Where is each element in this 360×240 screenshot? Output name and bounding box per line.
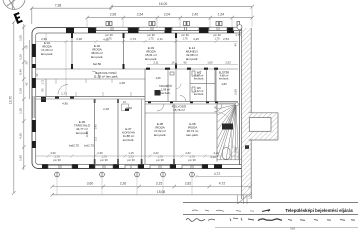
svg-text:4,72: 4,72 [214, 172, 220, 176]
svg-text:ker.burk.: ker.burk. [219, 77, 229, 81]
svg-text:1,30: 1,30 [18, 108, 22, 114]
svg-text:44: 44 [234, 43, 238, 47]
svg-text:2,40: 2,40 [192, 13, 199, 17]
top window labels [105, 33, 241, 40]
bottom window labels [50, 151, 219, 162]
svg-text:3,60: 3,60 [50, 151, 56, 155]
svg-text:ker.burk.: ker.burk. [123, 138, 135, 142]
left wall solid chunks [32, 44, 36, 148]
protrusion notch [249, 118, 271, 132]
svg-text:1,75: 1,75 [128, 154, 134, 158]
left dimension line 13,70 [12, 20, 16, 195]
svg-text:2,53: 2,53 [223, 37, 229, 41]
svg-text:1,70: 1,70 [54, 154, 60, 158]
top dimension line 7,38 [30, 6, 113, 24]
svg-text:pm 90: pm 90 [53, 158, 61, 162]
svg-text:2,11: 2,11 [153, 61, 159, 65]
svg-text:2,96: 2,96 [110, 13, 117, 17]
svg-text:3,38: 3,38 [76, 37, 82, 41]
svg-text:lam.park.: lam.park. [186, 57, 199, 61]
svg-text:1,71: 1,71 [41, 79, 45, 85]
svg-text:4,20: 4,20 [210, 155, 216, 159]
top dimension line 16,00 [110, 5, 255, 27]
svg-text:298: 298 [290, 227, 295, 231]
stair fan [218, 105, 239, 160]
party wall tail ticks [238, 195, 248, 204]
svg-text:0,46: 0,46 [18, 69, 22, 75]
svg-text:2,11: 2,11 [157, 37, 163, 41]
bottom windows [48, 165, 202, 168]
svg-text:lam.park.: lam.park. [41, 52, 54, 56]
svg-text:1,05: 1,05 [18, 35, 22, 41]
stair bottom tread [222, 148, 230, 160]
svg-text:2,36: 2,36 [120, 182, 127, 186]
svg-text:15,08: 15,08 [157, 190, 165, 194]
north symbol circle [3, 0, 25, 10]
svg-text:2,96: 2,96 [234, 89, 238, 95]
svg-text:4,62: 4,62 [103, 38, 109, 42]
svg-text:1,75: 1,75 [157, 154, 163, 158]
title block lines [183, 203, 358, 228]
svg-text:1,75: 1,75 [101, 154, 107, 158]
svg-text:2,3: 2,3 [94, 137, 98, 141]
svg-text:4,20: 4,20 [193, 37, 199, 41]
svg-text:lam.park.: lam.park. [145, 57, 158, 61]
takarító label [155, 76, 171, 95]
svg-text:pm 90: pm 90 [127, 158, 135, 162]
svg-text:7,38: 7,38 [55, 3, 62, 7]
stair bay dim 4,72 [195, 175, 244, 178]
corridor walls [36, 97, 238, 114]
svg-text:42: 42 [25, 82, 29, 86]
svg-text:3,15: 3,15 [156, 182, 163, 186]
room E.14 label [186, 46, 199, 61]
stamp scribbles row2 [186, 218, 355, 221]
svg-text:1,75: 1,75 [214, 36, 220, 40]
svg-text:2,53: 2,53 [225, 61, 231, 65]
svg-text:1,99 m²: 1,99 m² [161, 88, 170, 92]
outer wall top [32, 28, 242, 169]
svg-text:1,71: 1,71 [61, 92, 67, 96]
svg-text:ker.burk.: ker.burk. [194, 92, 204, 96]
partitions below corridor [95, 99, 239, 164]
room E.03 label [145, 46, 158, 61]
svg-text:1,75: 1,75 [235, 33, 241, 37]
svg-text:4,72: 4,72 [219, 182, 226, 186]
interior top dim chain [36, 40, 238, 43]
left dimension chain line [22, 24, 30, 170]
svg-text:2,83: 2,83 [221, 82, 227, 86]
svg-text:30: 30 [25, 61, 29, 65]
svg-text:11,35 m² lam.park.: 11,35 m² lam.park. [94, 75, 119, 79]
top dimension segment line [46, 16, 254, 96]
svg-text:8,90: 8,90 [85, 131, 89, 137]
interior partitions above corridor [36, 33, 238, 164]
svg-text:1,45: 1,45 [94, 124, 98, 130]
stair center circle [235, 103, 238, 106]
cluster top dim chain [147, 64, 238, 66]
corridor 2 label [172, 104, 187, 113]
room E.08b label [186, 122, 199, 137]
band dark mark [245, 145, 249, 149]
svg-text:1,75: 1,75 [189, 154, 195, 158]
party wall protrusion [249, 113, 278, 140]
room E.05 label [69, 120, 91, 148]
corridor jambs [56, 79, 131, 97]
svg-text:4,80: 4,80 [62, 102, 68, 106]
svg-text:15,76 m²: 15,76 m² [173, 108, 185, 112]
bottom dimension row 2 [51, 193, 253, 197]
svg-text:3,38: 3,38 [119, 81, 125, 85]
svg-text:2,02: 2,02 [153, 151, 159, 155]
room E.01 label [41, 41, 54, 56]
svg-text:3,36: 3,36 [18, 54, 22, 60]
svg-text:2,54: 2,54 [137, 13, 144, 17]
svg-text:16,00: 16,00 [159, 2, 168, 6]
north letter É [13, 12, 22, 24]
svg-text:1,06: 1,06 [207, 61, 213, 65]
room E.07 label [122, 127, 135, 142]
svg-text:1,06: 1,06 [155, 76, 161, 80]
svg-text:4,30: 4,30 [18, 133, 22, 139]
svg-text:1,96: 1,96 [18, 155, 22, 161]
party wall hatch band [242, 28, 252, 199]
svg-text:pm 90: pm 90 [100, 158, 108, 162]
top windows [96, 27, 242, 30]
bottom dimension row 1 [51, 185, 253, 189]
svg-text:2,39: 2,39 [18, 88, 22, 94]
extension lines below building [57, 177, 192, 195]
door arcs [58, 71, 222, 112]
svg-text:lam.park.: lam.park. [91, 55, 104, 59]
top wall solid chunks [66, 28, 234, 33]
svg-text:ker.burk.: ker.burk. [194, 77, 204, 81]
svg-text:bel2,75: bel2,75 [69, 144, 79, 148]
svg-text:2,62: 2,62 [185, 151, 191, 155]
svg-text:bel.50: bel.50 [93, 62, 102, 66]
bottom column circles [55, 172, 195, 177]
svg-text:lam.park.: lam.park. [154, 133, 167, 137]
svg-text:16: 16 [172, 61, 175, 65]
svg-text:13,70: 13,70 [9, 96, 13, 105]
svg-text:1,75: 1,75 [148, 36, 154, 40]
corridor notch [122, 104, 129, 111]
svg-text:1,94: 1,94 [218, 13, 225, 17]
svg-text:Településképi bejelentési eljá: Településképi bejelentési eljárás [285, 208, 353, 213]
WC labels [194, 71, 204, 97]
scattered interior dims [61, 81, 216, 159]
svg-text:pm 90: pm 90 [156, 158, 164, 162]
svg-text:90: 90 [184, 61, 187, 65]
svg-text:2,04: 2,04 [164, 13, 171, 17]
svg-text:3,60: 3,60 [87, 182, 94, 186]
top-right corner circle [237, 25, 242, 30]
svg-text:2,48: 2,48 [103, 107, 109, 111]
svg-text:50: 50 [25, 45, 29, 49]
svg-text:ker.burk.: ker.burk. [161, 91, 171, 95]
svg-text:bel2,75: bel2,75 [84, 144, 94, 148]
corridor left partition [45, 79, 47, 97]
room E.08 label [154, 122, 167, 137]
svg-text:1,15: 1,15 [128, 151, 134, 155]
top vent marks [106, 22, 240, 26]
stair lower edge line [217, 159, 242, 161]
interior bottom dim chain [36, 155, 238, 158]
svg-text:2,82: 2,82 [185, 182, 192, 186]
WC cluster partitions [168, 69, 215, 102]
svg-text:1,73: 1,73 [130, 37, 136, 41]
takarító door blob [155, 90, 161, 96]
svg-text:pm 90: pm 90 [188, 158, 196, 162]
svg-text:3,60: 3,60 [234, 147, 238, 153]
svg-text:lam.park.: lam.park. [186, 133, 199, 137]
bottom wall solid chunks [42, 164, 222, 168]
left wall window [33, 96, 35, 118]
room E.02 label [91, 44, 104, 66]
előtér label [219, 70, 230, 87]
stair bottom hatch patch [223, 145, 238, 160]
svg-text:2,48: 2,48 [126, 106, 132, 110]
svg-text:1,75: 1,75 [182, 36, 188, 40]
corridor E.06 label [94, 70, 119, 79]
partition end chunks [41, 33, 218, 164]
svg-text:2,36: 2,36 [97, 151, 103, 155]
kazánház dark label [222, 124, 233, 130]
stamp scribbles row1 [192, 210, 270, 212]
